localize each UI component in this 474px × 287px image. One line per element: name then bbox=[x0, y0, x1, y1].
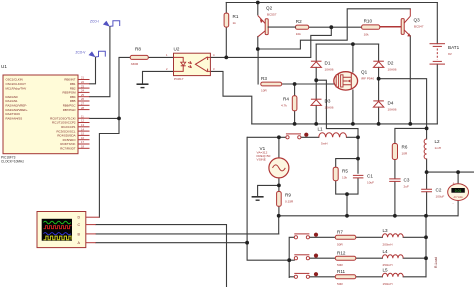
svg-text:C2: C2 bbox=[436, 188, 442, 193]
wire V1 top node bbox=[248, 136, 286, 138]
svg-text:14: 14 bbox=[81, 127, 84, 131]
svg-text:28: 28 bbox=[81, 106, 84, 110]
svg-text:CLOCK=10MHz: CLOCK=10MHz bbox=[1, 160, 24, 164]
switch load 3 bbox=[294, 272, 318, 278]
probe ZCO-I bbox=[90, 20, 120, 27]
inductor L2 bbox=[424, 139, 441, 159]
svg-text:27: 27 bbox=[81, 102, 84, 106]
wire L1 node to snubber bbox=[357, 137, 359, 158]
wire U2 pin2 to ground bbox=[143, 71, 174, 83]
resistor R7 bbox=[335, 230, 356, 247]
svg-text:10A06: 10A06 bbox=[388, 68, 397, 72]
svg-text:R5: R5 bbox=[342, 169, 348, 174]
wire L1 to node bbox=[347, 136, 359, 138]
wire D2 top lead bbox=[378, 44, 380, 61]
svg-text:D: D bbox=[78, 216, 81, 220]
wire D2 to D4 column bbox=[378, 67, 380, 124]
svg-text:1mH: 1mH bbox=[435, 146, 442, 150]
inductor L5 bbox=[382, 268, 403, 286]
svg-text:R1: R1 bbox=[233, 14, 239, 19]
svg-text:15: 15 bbox=[81, 132, 84, 136]
svg-text:200mH: 200mH bbox=[383, 242, 393, 246]
svg-text:BAT1: BAT1 bbox=[448, 45, 460, 50]
wire R9 node to scope B bbox=[278, 216, 280, 234]
svg-text:R11: R11 bbox=[337, 269, 346, 274]
svg-text:C3: C3 bbox=[404, 178, 410, 183]
wire top supply rail bbox=[226, 2, 437, 4]
wire RC0 node to scope D bbox=[99, 118, 119, 217]
svg-text:10R: 10R bbox=[261, 89, 267, 93]
probe ZCO-V bbox=[76, 51, 106, 58]
wire R9 legs bbox=[278, 185, 280, 215]
oscilloscope bbox=[37, 212, 99, 248]
wire snubber to bottom bus bbox=[346, 194, 348, 216]
svg-text:R7: R7 bbox=[337, 230, 343, 235]
svg-text:U1: U1 bbox=[1, 64, 7, 69]
diode D2 bbox=[373, 61, 396, 72]
wire R1 bottom to U2 pin4 node bbox=[225, 27, 227, 57]
svg-text:D3: D3 bbox=[325, 99, 331, 104]
svg-text:10R: 10R bbox=[402, 152, 408, 156]
wire load branch 3 bbox=[310, 276, 427, 278]
svg-text:R9: R9 bbox=[285, 193, 291, 198]
wire gate drive R3 to Q1 gate bbox=[282, 83, 336, 85]
svg-text:150mH: 150mH bbox=[383, 282, 393, 286]
switch SW main bbox=[286, 133, 309, 139]
svg-text:R12: R12 bbox=[337, 251, 346, 256]
svg-text:D1: D1 bbox=[325, 61, 331, 66]
wire scope channel C bbox=[96, 225, 227, 287]
wire Q2 emitter to top rail bbox=[257, 3, 259, 15]
wire L2 column bbox=[426, 128, 428, 172]
svg-text:10uF: 10uF bbox=[367, 181, 374, 185]
wire bottom return bus bbox=[279, 215, 458, 217]
wire U2 pin3 route to bottom rail bbox=[210, 71, 251, 124]
ground below U2 bbox=[137, 84, 149, 87]
capacitor C3 bbox=[389, 178, 410, 189]
wire R1 top lead bbox=[225, 3, 227, 14]
wire voltmeter bottom lead bbox=[457, 201, 459, 216]
svg-text:Q1: Q1 bbox=[361, 70, 368, 75]
svg-text:R10: R10 bbox=[364, 19, 373, 24]
wire output lower rail to R6 bbox=[395, 128, 427, 143]
resistor R2 bbox=[296, 19, 309, 36]
svg-text:23: 23 bbox=[81, 84, 84, 88]
wire snubber bottom bbox=[336, 178, 358, 194]
resistor R5 bbox=[333, 167, 348, 181]
svg-text:R6: R6 bbox=[402, 145, 408, 150]
wire battery column bbox=[436, 3, 438, 124]
switch load 2 bbox=[294, 254, 318, 260]
svg-text:AC Volts: AC Volts bbox=[454, 196, 464, 199]
wire switch to L1 bbox=[301, 136, 319, 138]
svg-text:0.01: 0.01 bbox=[455, 189, 462, 193]
svg-text:10k: 10k bbox=[296, 32, 301, 36]
svg-text:L3: L3 bbox=[383, 228, 389, 233]
svg-text:10A06: 10A06 bbox=[388, 108, 397, 112]
wire Q1 drain bbox=[352, 44, 354, 72]
resistor R3 bbox=[261, 76, 282, 93]
svg-text:RB7/PGD: RB7/PGD bbox=[63, 108, 76, 112]
wire load branch 1 bbox=[310, 236, 427, 238]
wire bridge top bus bbox=[316, 43, 378, 45]
wire D1 top lead bbox=[315, 44, 317, 61]
svg-text:22: 22 bbox=[81, 80, 84, 84]
svg-text:12: 12 bbox=[81, 119, 84, 123]
svg-text:VSINE: VSINE bbox=[257, 157, 266, 161]
wire R2 to R10 bbox=[309, 26, 362, 28]
wire R4 top lead bbox=[294, 84, 296, 96]
svg-text:C1: C1 bbox=[367, 174, 373, 179]
mosfet Q1 IRFP540 bbox=[334, 70, 375, 91]
inductor L4 bbox=[382, 249, 403, 267]
wire D2-D4 midpoint to output column bbox=[379, 79, 427, 129]
wire scope channel A to V1 node bbox=[96, 137, 247, 242]
inductor L3 bbox=[382, 228, 403, 246]
svg-text:ZCO-I: ZCO-I bbox=[90, 20, 99, 24]
wire V1 top lead bbox=[278, 137, 280, 158]
svg-text:50R: 50R bbox=[337, 263, 343, 267]
svg-text:26: 26 bbox=[81, 97, 84, 101]
resistor R1 bbox=[224, 13, 239, 27]
capacitor C1 bbox=[353, 174, 374, 185]
svg-text:L1: L1 bbox=[318, 127, 324, 132]
wire load branch 2 bbox=[310, 257, 427, 259]
svg-text:10k: 10k bbox=[364, 33, 369, 37]
svg-text:RC7/RX/DT: RC7/RX/DT bbox=[60, 147, 75, 151]
svg-text:R3: R3 bbox=[261, 76, 267, 81]
svg-text:0.33R: 0.33R bbox=[285, 200, 294, 204]
svg-text:U2: U2 bbox=[174, 47, 180, 52]
resistor R12 bbox=[335, 251, 356, 268]
optocoupler U2 PC817 bbox=[166, 47, 215, 82]
transistor Q3 BC547 bbox=[380, 9, 424, 37]
diode D3 bbox=[311, 99, 334, 110]
svg-text:R2: R2 bbox=[296, 19, 302, 24]
svg-text:17: 17 bbox=[81, 140, 84, 144]
svg-text:RA5/AN4/SS: RA5/AN4/SS bbox=[6, 116, 23, 120]
wire R3 feed from Q2 collector node bbox=[257, 49, 259, 84]
switch load 1 bbox=[294, 233, 318, 239]
svg-text:330R: 330R bbox=[131, 62, 139, 66]
svg-text:18: 18 bbox=[81, 145, 84, 149]
resistor R9 bbox=[277, 192, 294, 207]
svg-text:50R: 50R bbox=[337, 242, 343, 246]
svg-text:R-Load: R-Load bbox=[434, 257, 438, 268]
svg-text:R8: R8 bbox=[135, 47, 141, 52]
inductor L1 bbox=[318, 127, 347, 146]
diode D1 bbox=[311, 61, 334, 72]
svg-text:13: 13 bbox=[81, 123, 84, 127]
wire V1 node to load rail bbox=[247, 243, 289, 261]
svg-text:PC817: PC817 bbox=[174, 77, 184, 81]
wire V1 bottom node bbox=[258, 178, 279, 196]
svg-text:100uF: 100uF bbox=[436, 195, 445, 199]
svg-text:+: + bbox=[453, 182, 455, 186]
voltmeter AC bbox=[448, 182, 469, 206]
wire output line to right edge bbox=[427, 171, 474, 173]
svg-text:13k: 13k bbox=[342, 176, 347, 180]
svg-text:D2: D2 bbox=[388, 61, 394, 66]
wire R6 to C3 bbox=[394, 160, 396, 216]
battery BAT1 bbox=[430, 44, 460, 64]
wire D1 to D3 column bbox=[315, 67, 317, 124]
sine source V1 bbox=[257, 146, 289, 178]
wire Q1 source bbox=[352, 90, 354, 124]
wire C2 legs bbox=[426, 172, 428, 216]
svg-text:BC557: BC557 bbox=[267, 13, 277, 17]
svg-text:4.7k: 4.7k bbox=[281, 104, 287, 108]
wire U2 pin4 bbox=[210, 56, 226, 58]
wire snubber top bbox=[336, 159, 358, 174]
svg-text:5mH: 5mH bbox=[321, 142, 328, 146]
svg-text:2uF: 2uF bbox=[404, 185, 409, 189]
svg-text:25: 25 bbox=[81, 93, 84, 97]
resistor R4 bbox=[281, 96, 297, 111]
resistor R6 bbox=[392, 144, 408, 160]
svg-text:10A06: 10A06 bbox=[325, 68, 334, 72]
wire U2 pin4 node to R2-R10 junction staircase bbox=[226, 27, 331, 57]
wire RC0 node bbox=[90, 57, 131, 118]
resistor R8 bbox=[130, 47, 148, 67]
wire load left rail bbox=[289, 237, 294, 277]
wire R8 to U2 pin1 bbox=[148, 56, 173, 58]
wire Q2 collector down bbox=[257, 37, 259, 50]
svg-text:D4: D4 bbox=[388, 101, 394, 106]
wire Q2 collector to Q3 collector staircase bbox=[258, 9, 411, 49]
svg-text:ZCO-V: ZCO-V bbox=[76, 51, 87, 55]
svg-text:L5: L5 bbox=[383, 268, 389, 273]
svg-text:C: C bbox=[78, 223, 81, 227]
svg-text:L4: L4 bbox=[383, 249, 389, 254]
svg-text:BC547: BC547 bbox=[414, 25, 424, 29]
svg-text:24: 24 bbox=[81, 89, 84, 93]
resistor R11 bbox=[335, 269, 356, 286]
wire bridge bottom rail bbox=[252, 123, 437, 125]
ground below V1 bbox=[252, 197, 264, 200]
wire voltmeter top lead bbox=[457, 172, 459, 184]
diode D4 bbox=[373, 101, 396, 112]
microcontroller U1 PIC16F73 bbox=[1, 64, 90, 164]
svg-text:Q2: Q2 bbox=[266, 6, 273, 11]
wire R10 to Q3 base bbox=[380, 26, 401, 28]
transistor Q2 BC557 bbox=[258, 6, 296, 37]
resistor R10 bbox=[362, 19, 380, 37]
wire load right rail bbox=[425, 216, 427, 277]
svg-text:21: 21 bbox=[81, 76, 84, 80]
svg-text:16: 16 bbox=[81, 136, 84, 140]
svg-text:1k: 1k bbox=[233, 21, 237, 25]
svg-text:L2: L2 bbox=[435, 139, 441, 144]
wire probe ZCO-I to RB4 bbox=[90, 27, 110, 97]
capacitor C2 bbox=[421, 188, 444, 199]
svg-text:IRF P540: IRF P540 bbox=[361, 77, 374, 81]
svg-text:50R: 50R bbox=[337, 282, 343, 286]
svg-text:MCLR/Vpp/THV: MCLR/Vpp/THV bbox=[6, 86, 27, 90]
wire Q3 emitter down to lower rail bbox=[409, 36, 411, 124]
wire scope channel B bbox=[96, 233, 279, 235]
svg-text:Q3: Q3 bbox=[414, 18, 421, 23]
svg-text:R4: R4 bbox=[283, 97, 289, 102]
svg-text:10A06: 10A06 bbox=[325, 106, 334, 110]
wire probe ZCO-V to RB1 bbox=[90, 57, 96, 84]
wire R4 bottom lead bbox=[294, 111, 296, 124]
wire D1-D3 midpoint to L1 node bbox=[316, 80, 358, 137]
